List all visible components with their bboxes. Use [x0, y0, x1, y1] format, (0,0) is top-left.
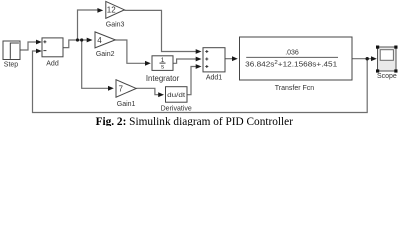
svg-text:Gain1: Gain1 [117, 101, 136, 108]
svg-text:Add1: Add1 [206, 75, 222, 82]
svg-text:Fig. 2: Simulink diagram of PI: Fig. 2: Simulink diagram of PID Controll… [96, 116, 294, 126]
svg-text:du/dt: du/dt [167, 92, 185, 99]
svg-text:7: 7 [119, 85, 124, 94]
svg-text:Gain2: Gain2 [96, 51, 115, 58]
svg-text:Transfer Fcn: Transfer Fcn [275, 85, 315, 92]
svg-text:.036: .036 [285, 49, 299, 56]
svg-text:12: 12 [107, 6, 116, 15]
svg-text:Add: Add [46, 61, 59, 68]
svg-text:Derivative: Derivative [161, 105, 192, 112]
svg-text:Gain3: Gain3 [106, 21, 125, 28]
svg-text:Step: Step [4, 62, 19, 69]
svg-text:4: 4 [97, 36, 102, 45]
svg-text:Scope: Scope [377, 73, 397, 80]
svg-text:Integrator: Integrator [146, 74, 180, 83]
svg-text:36.842s2+12.1568s+.451: 36.842s2+12.1568s+.451 [245, 60, 337, 68]
